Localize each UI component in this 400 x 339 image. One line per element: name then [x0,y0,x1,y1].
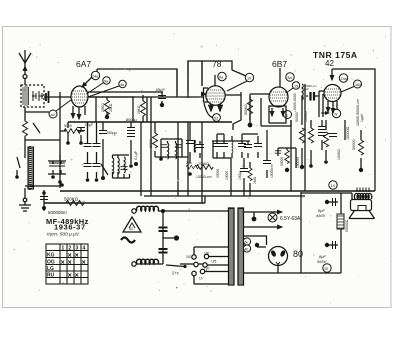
svg-text:1936-37: 1936-37 [54,223,86,232]
svg-text:110: 110 [186,255,191,259]
svg-text:100000: 100000 [296,157,300,168]
svg-text:30000: 30000 [216,169,220,178]
svg-text:50000: 50000 [352,139,356,150]
svg-text:Ιησπ. 500 μ.μV.: Ιησπ. 500 μ.μV. [47,232,80,238]
svg-text:42: 42 [129,226,134,231]
svg-text:10000Ω: 10000Ω [346,126,350,140]
svg-text:0000-0000: 0000-0000 [293,93,297,110]
svg-text:565V: 565V [317,259,327,264]
svg-text:4b: 4b [245,248,249,252]
svg-text:4b: 4b [120,83,124,87]
svg-text:20KΩ: 20KΩ [149,139,153,148]
svg-text:50000Ω: 50000Ω [345,219,349,232]
svg-text:×: × [68,272,72,279]
svg-text:52: 52 [214,117,218,121]
svg-text:6v: 6v [245,241,249,245]
svg-text:80: 80 [293,249,303,259]
svg-text:50000: 50000 [295,112,299,122]
svg-text:50000: 50000 [280,157,284,166]
svg-text:1: 1 [62,246,65,252]
svg-text:2+c: 2+c [172,271,179,276]
svg-text:×: × [61,259,65,266]
svg-text:16a: 16a [355,83,362,87]
svg-text:2μμ: 2μμ [186,161,192,165]
svg-text:×: × [75,272,79,279]
svg-text:450V: 450V [316,213,326,218]
svg-text:100μμ: 100μμ [238,171,242,180]
svg-text:0.1μF: 0.1μF [134,151,138,160]
svg-text:125: 125 [211,260,217,264]
svg-text:2: 2 [69,246,72,252]
svg-text:24a: 24a [341,77,348,81]
svg-text:6B7: 6B7 [272,59,287,69]
svg-text:4: 4 [83,246,86,252]
svg-text:1μμV: 1μμV [360,113,364,122]
svg-text:78: 78 [212,59,222,69]
svg-text:24a: 24a [92,75,99,79]
svg-text:×: × [75,252,79,259]
svg-text:.05μF: .05μF [84,123,93,127]
svg-text:3: 3 [76,246,79,252]
svg-text:500KΩ: 500KΩ [64,197,79,202]
svg-text:130: 130 [204,252,210,256]
svg-text:×: × [68,252,72,259]
svg-text:OG: OG [47,260,55,266]
svg-text:×: × [68,259,72,266]
svg-text:100KΩ: 100KΩ [304,111,308,122]
svg-text:250μμ: 250μμ [106,131,117,135]
svg-text:a2: a2 [51,113,55,117]
svg-text:RU: RU [47,273,55,279]
svg-text:10000: 10000 [225,171,229,180]
svg-text:20KΩ: 20KΩ [137,105,141,114]
svg-text:1ΜΩ: 1ΜΩ [253,176,257,184]
svg-text:42: 42 [325,59,334,68]
svg-text:13000-cm: 13000-cm [196,175,212,179]
svg-text:10: 10 [247,77,251,81]
svg-text:×: × [82,259,86,266]
svg-text:100KΩ: 100KΩ [337,149,341,160]
svg-text:10000cm: 10000cm [270,164,274,178]
svg-text:20KΩ: 20KΩ [101,103,105,112]
svg-text:10: 10 [324,267,328,271]
svg-text:6A7: 6A7 [76,59,91,69]
svg-text:800μμ: 800μμ [126,118,137,122]
svg-text:μμF: μμF [304,87,309,91]
svg-text:N: N [335,113,338,117]
svg-text:20KΩ: 20KΩ [109,103,113,112]
svg-text:6.5Y-63A: 6.5Y-63A [280,216,301,222]
svg-text:500KΩ: 500KΩ [244,104,248,115]
svg-text:14: 14 [331,184,335,188]
svg-text:KG: KG [47,253,55,259]
svg-text:.05μF: .05μF [155,88,165,92]
svg-text:15: 15 [294,85,298,89]
svg-text:LG: LG [47,266,54,272]
svg-text:5000: 5000 [64,124,72,128]
svg-text:500000m: 500000m [48,210,67,215]
